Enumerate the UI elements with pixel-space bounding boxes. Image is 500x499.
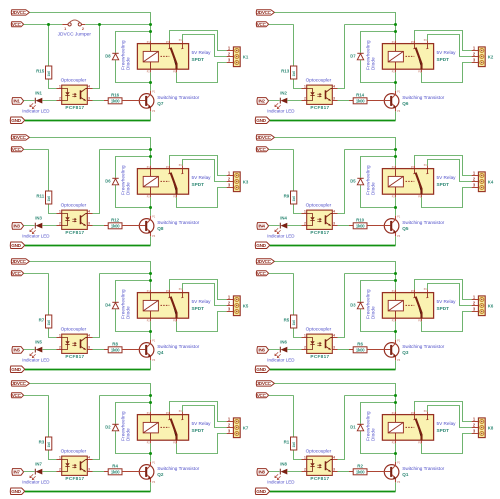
wire relay NO contact to K6 pin 1 — [415, 280, 472, 300]
svg-text:IN7: IN7 — [13, 470, 20, 475]
svg-text:Optocoupler: Optocoupler — [61, 449, 87, 454]
svg-text:JDVCC: JDVCC — [12, 259, 27, 264]
node coil bottom junction — [394, 330, 397, 333]
svg-text:GND: GND — [256, 243, 266, 248]
wire JDVCC rail to relay coil top — [29, 384, 150, 412]
svg-text:JDVCC Jumper: JDVCC Jumper — [58, 31, 92, 37]
wire ground rail — [25, 245, 151, 247]
diode D4 freewheeling — [105, 289, 130, 319]
diode D1 freewheeling — [350, 411, 375, 441]
LED IN3 indicator — [22, 216, 50, 239]
svg-text:D8: D8 — [105, 53, 111, 58]
resistor R5 — [284, 315, 297, 328]
wire freewheeling diode D3 bottom branch — [361, 309, 396, 331]
svg-text:Q2: Q2 — [157, 472, 164, 477]
input flag IN6 — [257, 347, 269, 354]
wire input IN4 to indicator LED to opto pin 2 — [269, 225, 302, 227]
svg-text:Switching Transistor: Switching Transistor — [402, 344, 444, 349]
svg-text:JDVCC: JDVCC — [257, 381, 272, 386]
wire freewheeling diode D4 top branch — [116, 281, 151, 302]
svg-text:2: 2 — [59, 346, 61, 350]
connector K2 screw terminal — [472, 46, 494, 67]
diode D8 freewheeling — [105, 40, 130, 70]
node JDVCC/VCC junction — [149, 23, 152, 26]
wire freewheeling diode D2 top branch — [116, 403, 151, 424]
svg-text:4: 4 — [88, 333, 90, 337]
input flag IN7 — [12, 469, 24, 476]
svg-text:IN4: IN4 — [258, 224, 265, 229]
svg-text:Diode: Diode — [126, 182, 131, 195]
node JDVCC/VCC junction — [394, 272, 397, 275]
svg-text:SPDT: SPDT — [437, 428, 450, 433]
input flag IN4 — [257, 223, 269, 230]
svg-text:1k0: 1k0 — [47, 320, 51, 326]
svg-text:IN1: IN1 — [35, 91, 42, 96]
ground flag GND — [255, 488, 269, 495]
wire relay coil bottom to transistor Q7 collector — [150, 72, 152, 91]
wire VCC rail segment A — [269, 273, 294, 275]
wire relay common to K1 pin 3 — [177, 63, 227, 83]
input flag IN5 — [12, 347, 24, 354]
wire input IN8 to indicator LED to opto pin 2 — [269, 471, 302, 473]
svg-text:Diode: Diode — [371, 306, 376, 319]
wire opto pin 3 to resistor R4 — [93, 471, 109, 473]
transistor Q4 — [122, 340, 200, 362]
svg-text:Indicator LED: Indicator LED — [267, 234, 295, 239]
optocoupler OK (5) PCF817 — [302, 327, 338, 359]
svg-text:Optocoupler: Optocoupler — [306, 449, 332, 454]
svg-text:IN3: IN3 — [35, 216, 42, 221]
wire relay NC contact to K7 pin 2 — [183, 406, 227, 428]
svg-text:K5: K5 — [243, 303, 249, 308]
wire VCC down to resistor R3 and opto pin 1 — [49, 396, 57, 460]
svg-text:1: 1 — [304, 209, 306, 213]
supply flag VCC — [11, 271, 23, 276]
wire relay coil bottom to transistor Q2 collector — [150, 443, 152, 462]
svg-text:Switching Transistor: Switching Transistor — [157, 220, 199, 225]
svg-text:R11: R11 — [36, 194, 44, 199]
node diode top junction — [394, 155, 397, 158]
svg-text:IN5: IN5 — [35, 340, 42, 345]
resistor R2 — [349, 463, 384, 475]
svg-text:VCC: VCC — [12, 22, 22, 27]
svg-text:1: 1 — [304, 455, 306, 459]
svg-text:D6: D6 — [105, 178, 111, 183]
svg-text:5V Relay: 5V Relay — [192, 421, 212, 426]
wire JDVCC rail to relay coil top — [29, 262, 150, 290]
input flag IN3 — [12, 223, 24, 230]
svg-text:Indicator LED: Indicator LED — [22, 234, 50, 239]
svg-text:4: 4 — [333, 333, 335, 337]
wire relay NC contact to K1 pin 2 — [183, 35, 227, 57]
wire relay NO contact to K3 pin 1 — [170, 156, 227, 176]
node coil bottom junction — [149, 330, 152, 333]
svg-text:3: 3 — [333, 468, 335, 472]
svg-text:1k00: 1k00 — [356, 348, 365, 353]
svg-text:Diode: Diode — [371, 57, 376, 70]
wire opto pin 3 to resistor R10 — [338, 225, 354, 227]
wire relay common to K2 pin 3 — [422, 63, 472, 83]
svg-text:1k00: 1k00 — [356, 99, 365, 104]
optocoupler OK (7) PCF817 — [57, 327, 93, 359]
svg-text:IN4: IN4 — [280, 216, 287, 221]
optocoupler OK (9) PCF817 — [302, 203, 338, 235]
svg-text:Switching Transistor: Switching Transistor — [157, 95, 199, 100]
svg-text:R3: R3 — [39, 440, 45, 445]
svg-text:IN8: IN8 — [280, 462, 287, 467]
svg-text:GND: GND — [11, 243, 21, 248]
wire relay coil bottom to transistor Q4 collector — [150, 321, 152, 340]
svg-text:2: 2 — [59, 468, 61, 472]
optocoupler OK (13) PCF817 — [302, 78, 338, 110]
svg-text:Diode: Diode — [126, 306, 131, 319]
supply flag JDVCC (K3 channel) — [11, 135, 29, 140]
svg-text:R7: R7 — [39, 318, 45, 323]
wire JDVCC rail to relay coil top — [29, 13, 150, 41]
node JDVCC/VCC junction — [394, 23, 397, 26]
svg-text:R14: R14 — [356, 92, 365, 97]
node diode top junction — [394, 401, 397, 404]
wire JDVCC rail to relay coil top — [29, 138, 150, 166]
svg-text:SPDT: SPDT — [192, 428, 205, 433]
svg-text:VCC: VCC — [257, 393, 267, 398]
wire transistor Q3 emitter to ground — [395, 360, 397, 369]
svg-text:PCF817: PCF817 — [65, 476, 84, 481]
resistor R16 — [104, 92, 139, 104]
wire VCC rail segment A — [24, 395, 49, 397]
wire VCC rail segment A — [24, 273, 49, 275]
wire relay NO contact to K5 pin 1 — [170, 280, 227, 300]
svg-text:1k00: 1k00 — [356, 470, 365, 475]
svg-text:K6: K6 — [488, 303, 494, 308]
svg-text:K3: K3 — [243, 179, 249, 184]
svg-text:2: 2 — [82, 27, 84, 31]
svg-text:SPDT: SPDT — [192, 57, 205, 62]
svg-text:4: 4 — [88, 455, 90, 459]
node diode top junction — [149, 401, 152, 404]
wire transistor Q1 emitter to ground — [395, 482, 397, 491]
wire opto pin 4 up to VCC rail — [338, 150, 345, 214]
svg-text:GND: GND — [11, 489, 21, 494]
svg-text:IN5: IN5 — [13, 348, 20, 353]
diode D6 freewheeling — [105, 165, 130, 195]
wire freewheeling diode D6 bottom branch — [116, 185, 151, 207]
wire relay common to K8 pin 3 — [422, 434, 472, 454]
svg-text:K1: K1 — [243, 54, 249, 59]
wire relay coil bottom to transistor Q6 collector — [395, 72, 397, 91]
svg-text:R4: R4 — [112, 463, 118, 468]
wire transistor Q5 emitter to ground — [395, 236, 397, 245]
svg-text:5V Relay: 5V Relay — [437, 421, 457, 426]
wire relay NC contact to K8 pin 2 — [428, 406, 472, 428]
jumper JP1 JDVCC Jumper — [62, 20, 85, 31]
svg-text:1: 1 — [304, 333, 306, 337]
svg-text:Diode: Diode — [371, 428, 376, 441]
supply flag JDVCC (K2 channel) — [256, 10, 274, 15]
supply flag VCC — [256, 393, 268, 398]
wire ground rail — [25, 120, 151, 122]
svg-text:2: 2 — [304, 97, 306, 101]
supply flag JDVCC (K4 channel) — [256, 135, 274, 140]
svg-text:Diode: Diode — [371, 182, 376, 195]
connector K4 screw terminal — [472, 171, 494, 192]
svg-text:D7: D7 — [350, 53, 356, 58]
svg-text:Optocoupler: Optocoupler — [61, 327, 87, 332]
transistor Q3 — [367, 340, 445, 362]
svg-text:1k00: 1k00 — [111, 348, 120, 353]
svg-text:2: 2 — [59, 222, 61, 226]
svg-text:Indicator LED: Indicator LED — [22, 358, 50, 363]
ground flag GND — [255, 242, 269, 249]
svg-text:JDVCC: JDVCC — [257, 259, 272, 264]
svg-text:K4: K4 — [488, 179, 494, 184]
wire ground rail — [270, 369, 396, 371]
svg-text:5V Relay: 5V Relay — [192, 50, 212, 55]
svg-text:5V Relay: 5V Relay — [437, 299, 457, 304]
svg-text:VCC: VCC — [257, 147, 267, 152]
svg-text:JDVCC: JDVCC — [12, 381, 27, 386]
resistor R3 — [39, 437, 52, 450]
svg-text:JDVCC: JDVCC — [257, 135, 272, 140]
diode D7 freewheeling — [350, 40, 375, 70]
LED IN7 indicator — [22, 462, 50, 485]
diode D3 freewheeling — [350, 289, 375, 319]
wire transistor Q8 emitter to ground — [150, 236, 152, 245]
wire VCC rail segment A — [269, 24, 294, 26]
svg-text:GND: GND — [11, 118, 21, 123]
connector K6 screw terminal — [472, 295, 494, 316]
svg-text:4: 4 — [333, 84, 335, 88]
resistor R14 — [349, 92, 384, 104]
node diode top junction — [149, 155, 152, 158]
svg-text:K2: K2 — [488, 54, 494, 59]
svg-text:GND: GND — [256, 118, 266, 123]
node coil bottom junction — [149, 206, 152, 209]
svg-text:Q5: Q5 — [402, 226, 409, 231]
svg-text:2: 2 — [304, 468, 306, 472]
svg-text:SPDT: SPDT — [437, 57, 450, 62]
wire transistor Q2 emitter to ground — [150, 482, 152, 491]
svg-text:2: 2 — [304, 222, 306, 226]
svg-text:1k00: 1k00 — [111, 99, 120, 104]
svg-text:3: 3 — [88, 346, 90, 350]
svg-text:IN6: IN6 — [258, 348, 265, 353]
wire opto pin 4 up to VCC rail — [338, 396, 345, 460]
wire freewheeling diode D7 top branch — [361, 32, 396, 53]
node JDVCC/VCC junction — [149, 148, 152, 151]
connector K8 screw terminal — [472, 417, 494, 438]
LED IN8 indicator — [267, 462, 295, 485]
supply flag VCC — [11, 393, 23, 398]
svg-text:Indicator LED: Indicator LED — [22, 480, 50, 485]
svg-text:5V Relay: 5V Relay — [437, 175, 457, 180]
svg-text:Optocoupler: Optocoupler — [306, 78, 332, 83]
supply flag VCC — [11, 147, 23, 152]
wire input IN2 to indicator LED to opto pin 2 — [269, 100, 302, 102]
wire opto pin 3 to resistor R14 — [338, 100, 354, 102]
svg-text:Q7: Q7 — [157, 101, 164, 106]
svg-text:IN7: IN7 — [35, 462, 42, 467]
svg-text:3: 3 — [88, 222, 90, 226]
svg-text:PCF817: PCF817 — [310, 105, 329, 110]
optocoupler OK (3) PCF817 — [57, 449, 93, 481]
resistor R10 — [349, 217, 384, 229]
svg-text:1k0: 1k0 — [292, 320, 296, 326]
svg-text:Optocoupler: Optocoupler — [61, 78, 87, 83]
svg-text:R9: R9 — [284, 194, 290, 199]
wire VCC down to resistor R13 and opto pin 1 — [294, 25, 302, 89]
node JDVCC/VCC junction — [149, 272, 152, 275]
supply flag VCC — [256, 147, 268, 152]
connector K5 screw terminal — [227, 295, 249, 316]
wire ground rail — [270, 245, 396, 247]
svg-text:Switching Transistor: Switching Transistor — [157, 466, 199, 471]
connector K3 screw terminal — [227, 171, 249, 192]
svg-text:Q3: Q3 — [402, 350, 409, 355]
wire ground rail — [270, 120, 396, 122]
svg-text:1k0: 1k0 — [292, 196, 296, 202]
svg-text:R13: R13 — [281, 69, 290, 74]
svg-text:3: 3 — [333, 346, 335, 350]
wire JDVCC rail to relay coil top — [274, 384, 395, 412]
svg-text:R8: R8 — [112, 341, 118, 346]
wire VCC rail segment B — [100, 395, 151, 397]
ground flag GND — [10, 366, 24, 373]
node diode top junction — [394, 30, 397, 33]
svg-text:R2: R2 — [357, 463, 363, 468]
node coil bottom junction — [394, 81, 397, 84]
resistor R12 — [104, 217, 139, 229]
svg-text:4: 4 — [333, 455, 335, 459]
wire input IN3 to indicator LED to opto pin 2 — [24, 225, 57, 227]
svg-text:Diode: Diode — [126, 428, 131, 441]
relay (5V Relay SPDT) — [382, 289, 456, 322]
wire opto pin 3 to resistor R16 — [93, 100, 109, 102]
svg-text:PCF817: PCF817 — [310, 354, 329, 359]
wire relay NO contact to K4 pin 1 — [415, 156, 472, 176]
transistor Q8 — [122, 216, 200, 238]
wire VCC rail (through jumper) — [24, 24, 151, 26]
svg-text:PCF817: PCF817 — [65, 354, 84, 359]
wire freewheeling diode D8 bottom branch — [116, 60, 151, 82]
supply flag JDVCC (K8 channel) — [256, 381, 274, 386]
resistor R15 — [36, 66, 52, 79]
wire ground rail — [25, 491, 151, 493]
resistor R11 — [36, 191, 51, 204]
wire ground rail — [25, 369, 151, 371]
svg-text:Indicator LED: Indicator LED — [267, 480, 295, 485]
supply flag VCC — [11, 22, 23, 27]
wire VCC rail segment A — [269, 395, 294, 397]
svg-text:4: 4 — [88, 209, 90, 213]
wire VCC rail segment B — [345, 24, 396, 26]
wire freewheeling diode D4 bottom branch — [116, 309, 151, 331]
svg-text:SPDT: SPDT — [437, 182, 450, 187]
wire transistor Q4 emitter to ground — [150, 360, 152, 369]
node JDVCC/VCC junction — [149, 394, 152, 397]
wire VCC down to resistor R15 and opto pin 1 — [49, 25, 57, 89]
svg-text:2: 2 — [59, 97, 61, 101]
node VCC-opto junction — [98, 23, 101, 26]
svg-text:SPDT: SPDT — [192, 306, 205, 311]
svg-text:1: 1 — [59, 455, 61, 459]
wire relay common to K7 pin 3 — [177, 434, 227, 454]
svg-text:1: 1 — [64, 27, 66, 31]
svg-text:SPDT: SPDT — [437, 306, 450, 311]
supply flag VCC — [256, 22, 268, 27]
wire relay NC contact to K3 pin 2 — [183, 160, 227, 182]
svg-text:R15: R15 — [36, 69, 45, 74]
svg-text:VCC: VCC — [257, 271, 267, 276]
wire ground rail — [270, 491, 396, 493]
svg-text:PCF817: PCF817 — [310, 476, 329, 481]
svg-text:Q6: Q6 — [402, 101, 409, 106]
svg-text:5V Relay: 5V Relay — [192, 299, 212, 304]
resistor R8 — [104, 341, 139, 353]
input flag IN1 — [12, 98, 24, 105]
svg-text:1: 1 — [304, 84, 306, 88]
ground flag GND — [10, 117, 24, 124]
optocoupler OK (11) PCF817 — [57, 203, 93, 235]
wire opto pin 4 up to VCC rail — [93, 274, 100, 338]
node coil bottom junction — [149, 452, 152, 455]
input flag IN2 — [257, 98, 269, 105]
resistor R9 — [284, 191, 297, 204]
wire relay common to K3 pin 3 — [177, 188, 227, 208]
svg-text:1k0: 1k0 — [47, 196, 51, 202]
svg-text:JDVCC: JDVCC — [12, 10, 27, 15]
wire JDVCC rail to relay coil top — [274, 262, 395, 290]
connector K7 screw terminal — [227, 417, 249, 438]
node JDVCC/VCC junction — [394, 148, 397, 151]
svg-text:Q4: Q4 — [157, 350, 164, 355]
relay (5V Relay SPDT) — [137, 165, 211, 198]
svg-text:Optocoupler: Optocoupler — [306, 327, 332, 332]
svg-text:IN3: IN3 — [13, 224, 20, 229]
svg-text:1k0: 1k0 — [47, 442, 51, 448]
resistor R13 — [281, 66, 297, 79]
svg-text:IN2: IN2 — [280, 91, 287, 96]
wire JDVCC rail to relay coil top — [274, 138, 395, 166]
wire relay coil bottom to transistor Q1 collector — [395, 443, 397, 462]
svg-text:K8: K8 — [488, 425, 494, 430]
wire relay NC contact to K5 pin 2 — [183, 284, 227, 306]
svg-text:R6: R6 — [357, 341, 363, 346]
wire VCC down to resistor R11 and opto pin 1 — [49, 150, 57, 214]
resistor R7 — [39, 315, 52, 328]
wire opto pin 4 up to VCC rail — [338, 25, 345, 89]
wire VCC rail segment B — [345, 149, 396, 151]
wire VCC rail segment B — [100, 149, 151, 151]
svg-text:Indicator LED: Indicator LED — [267, 109, 295, 114]
svg-text:5V Relay: 5V Relay — [192, 175, 212, 180]
svg-text:D1: D1 — [350, 424, 356, 429]
svg-text:PCF817: PCF817 — [310, 230, 329, 235]
LED IN4 indicator — [267, 216, 295, 239]
wire opto pin 3 to resistor R8 — [93, 349, 109, 351]
wire input IN5 to indicator LED to opto pin 2 — [24, 349, 57, 351]
wire VCC rail segment A — [269, 149, 294, 151]
wire freewheeling diode D5 top branch — [361, 157, 396, 178]
svg-text:1: 1 — [59, 333, 61, 337]
svg-text:PCF817: PCF817 — [65, 230, 84, 235]
svg-text:PCF817: PCF817 — [65, 105, 84, 110]
wire opto pin 4 up to VCC rail — [93, 150, 100, 214]
diode D5 freewheeling — [350, 165, 375, 195]
relay (5V Relay SPDT) — [137, 289, 211, 322]
svg-text:D4: D4 — [105, 302, 111, 307]
resistor R4 — [104, 463, 139, 475]
